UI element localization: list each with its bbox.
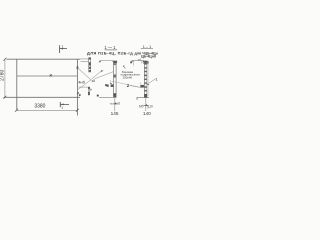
mark on mid line — [50, 74, 53, 76]
svg-text:ЦБ-4Цнб: ЦБ-4Цнб — [141, 54, 157, 58]
svg-text:м2: м2 — [138, 58, 142, 62]
internal hatch dashes — [145, 63, 147, 91]
svg-text:145: 145 — [111, 111, 119, 116]
svg-text:1 – 1: 1 – 1 — [143, 45, 151, 49]
corner specks — [77, 92, 79, 94]
level marks column 2 — [144, 105, 149, 107]
ground line under column 2 — [137, 97, 149, 99]
svg-text:1: 1 — [61, 106, 63, 110]
arrow speck2 — [97, 95, 99, 97]
walls — [144, 61, 147, 97]
arrow speck cap leader — [98, 61, 100, 63]
fan line lower — [78, 80, 91, 90]
main panel rectangle top edge — [7, 58, 81, 60]
speck right of cap — [147, 62, 148, 64]
main panel rectangle left edge — [16, 59, 18, 110]
figure B: small embed detail — [79, 87, 92, 95]
svg-text:к5: к5 — [92, 79, 96, 83]
top dim arrow between columns — [130, 60, 144, 65]
leader with label 1 — [147, 79, 155, 84]
long shallow leader — [112, 81, 144, 88]
svg-text:Мб: Мб — [139, 104, 144, 108]
bottom dim tick left — [15, 109, 18, 112]
bottom dimension line 3380 — [17, 109, 78, 111]
column 1: section I-I of panel — [105, 61, 125, 98]
leader from 2 to column 2 — [130, 86, 140, 88]
cap underblob — [113, 63, 116, 65]
bottom blob — [144, 94, 147, 98]
faint right wall — [147, 62, 149, 96]
walls — [114, 62, 117, 98]
internal blob mid — [114, 75, 116, 78]
svg-text:3380: 3380 — [34, 104, 45, 110]
column 2: section of other panel type — [140, 61, 149, 98]
leader fan lines — [78, 68, 114, 90]
section title I - I — [104, 45, 117, 50]
svg-text:1: 1 — [62, 45, 64, 49]
cap blob — [144, 61, 148, 64]
cap — [143, 60, 149, 62]
main panel rectangle right edge — [76, 59, 78, 115]
left protrusion — [140, 85, 144, 88]
ground line under column 1 — [99, 96, 116, 98]
bottom blob — [114, 93, 117, 97]
panel mid horizontal joint line — [17, 75, 78, 77]
column 1 lower extension — [114, 98, 116, 112]
small arrow right of top — [123, 66, 126, 69]
svg-text:250х40: 250х40 — [123, 76, 133, 80]
left dimension line 2780 — [4, 59, 6, 97]
svg-text:а: а — [136, 97, 138, 101]
paper background — [0, 0, 160, 160]
left dim tick top — [3, 58, 6, 61]
svg-text:1 — 1: 1 — 1 — [104, 45, 116, 50]
column 2 lower extension — [145, 98, 147, 111]
section cut marker top — [59, 45, 61, 53]
cap — [113, 61, 118, 63]
svg-text:2780: 2780 — [0, 70, 6, 81]
small section title right — [141, 45, 153, 49]
leader dot — [110, 80, 112, 83]
leader line to column1 cap — [100, 59, 114, 61]
arrow speck — [101, 70, 103, 72]
section cut marker bottom — [59, 102, 61, 107]
left dim tick bottom — [3, 96, 6, 99]
cap blob — [113, 61, 117, 64]
note text block (3 lines) — [121, 70, 141, 80]
level tick column 1 — [113, 103, 117, 105]
leader diag to column 1 — [95, 72, 114, 79]
svg-text:но: но — [110, 102, 114, 106]
svg-text:д10: д10 — [147, 104, 153, 108]
weld tick on right edge — [77, 66, 79, 69]
svg-text:ДЛЯ П2Б-4Ц, П2Б-гд: ДЛЯ П2Б-4Ц, П2Б-гд — [87, 51, 133, 56]
svg-text:140: 140 — [143, 111, 151, 116]
leader diag short — [91, 71, 101, 79]
bottom dim tick right — [76, 109, 79, 112]
svg-text:±0: ±0 — [117, 102, 121, 106]
fan line upper — [78, 68, 91, 80]
anchor protrusion — [111, 84, 114, 87]
main panel rectangle bottom edge — [4, 96, 80, 98]
small mark under cap left — [141, 62, 143, 64]
svg-text:4нб: 4нб — [78, 80, 85, 85]
figure A: panel edge strip with lifting loop — [81, 58, 91, 72]
